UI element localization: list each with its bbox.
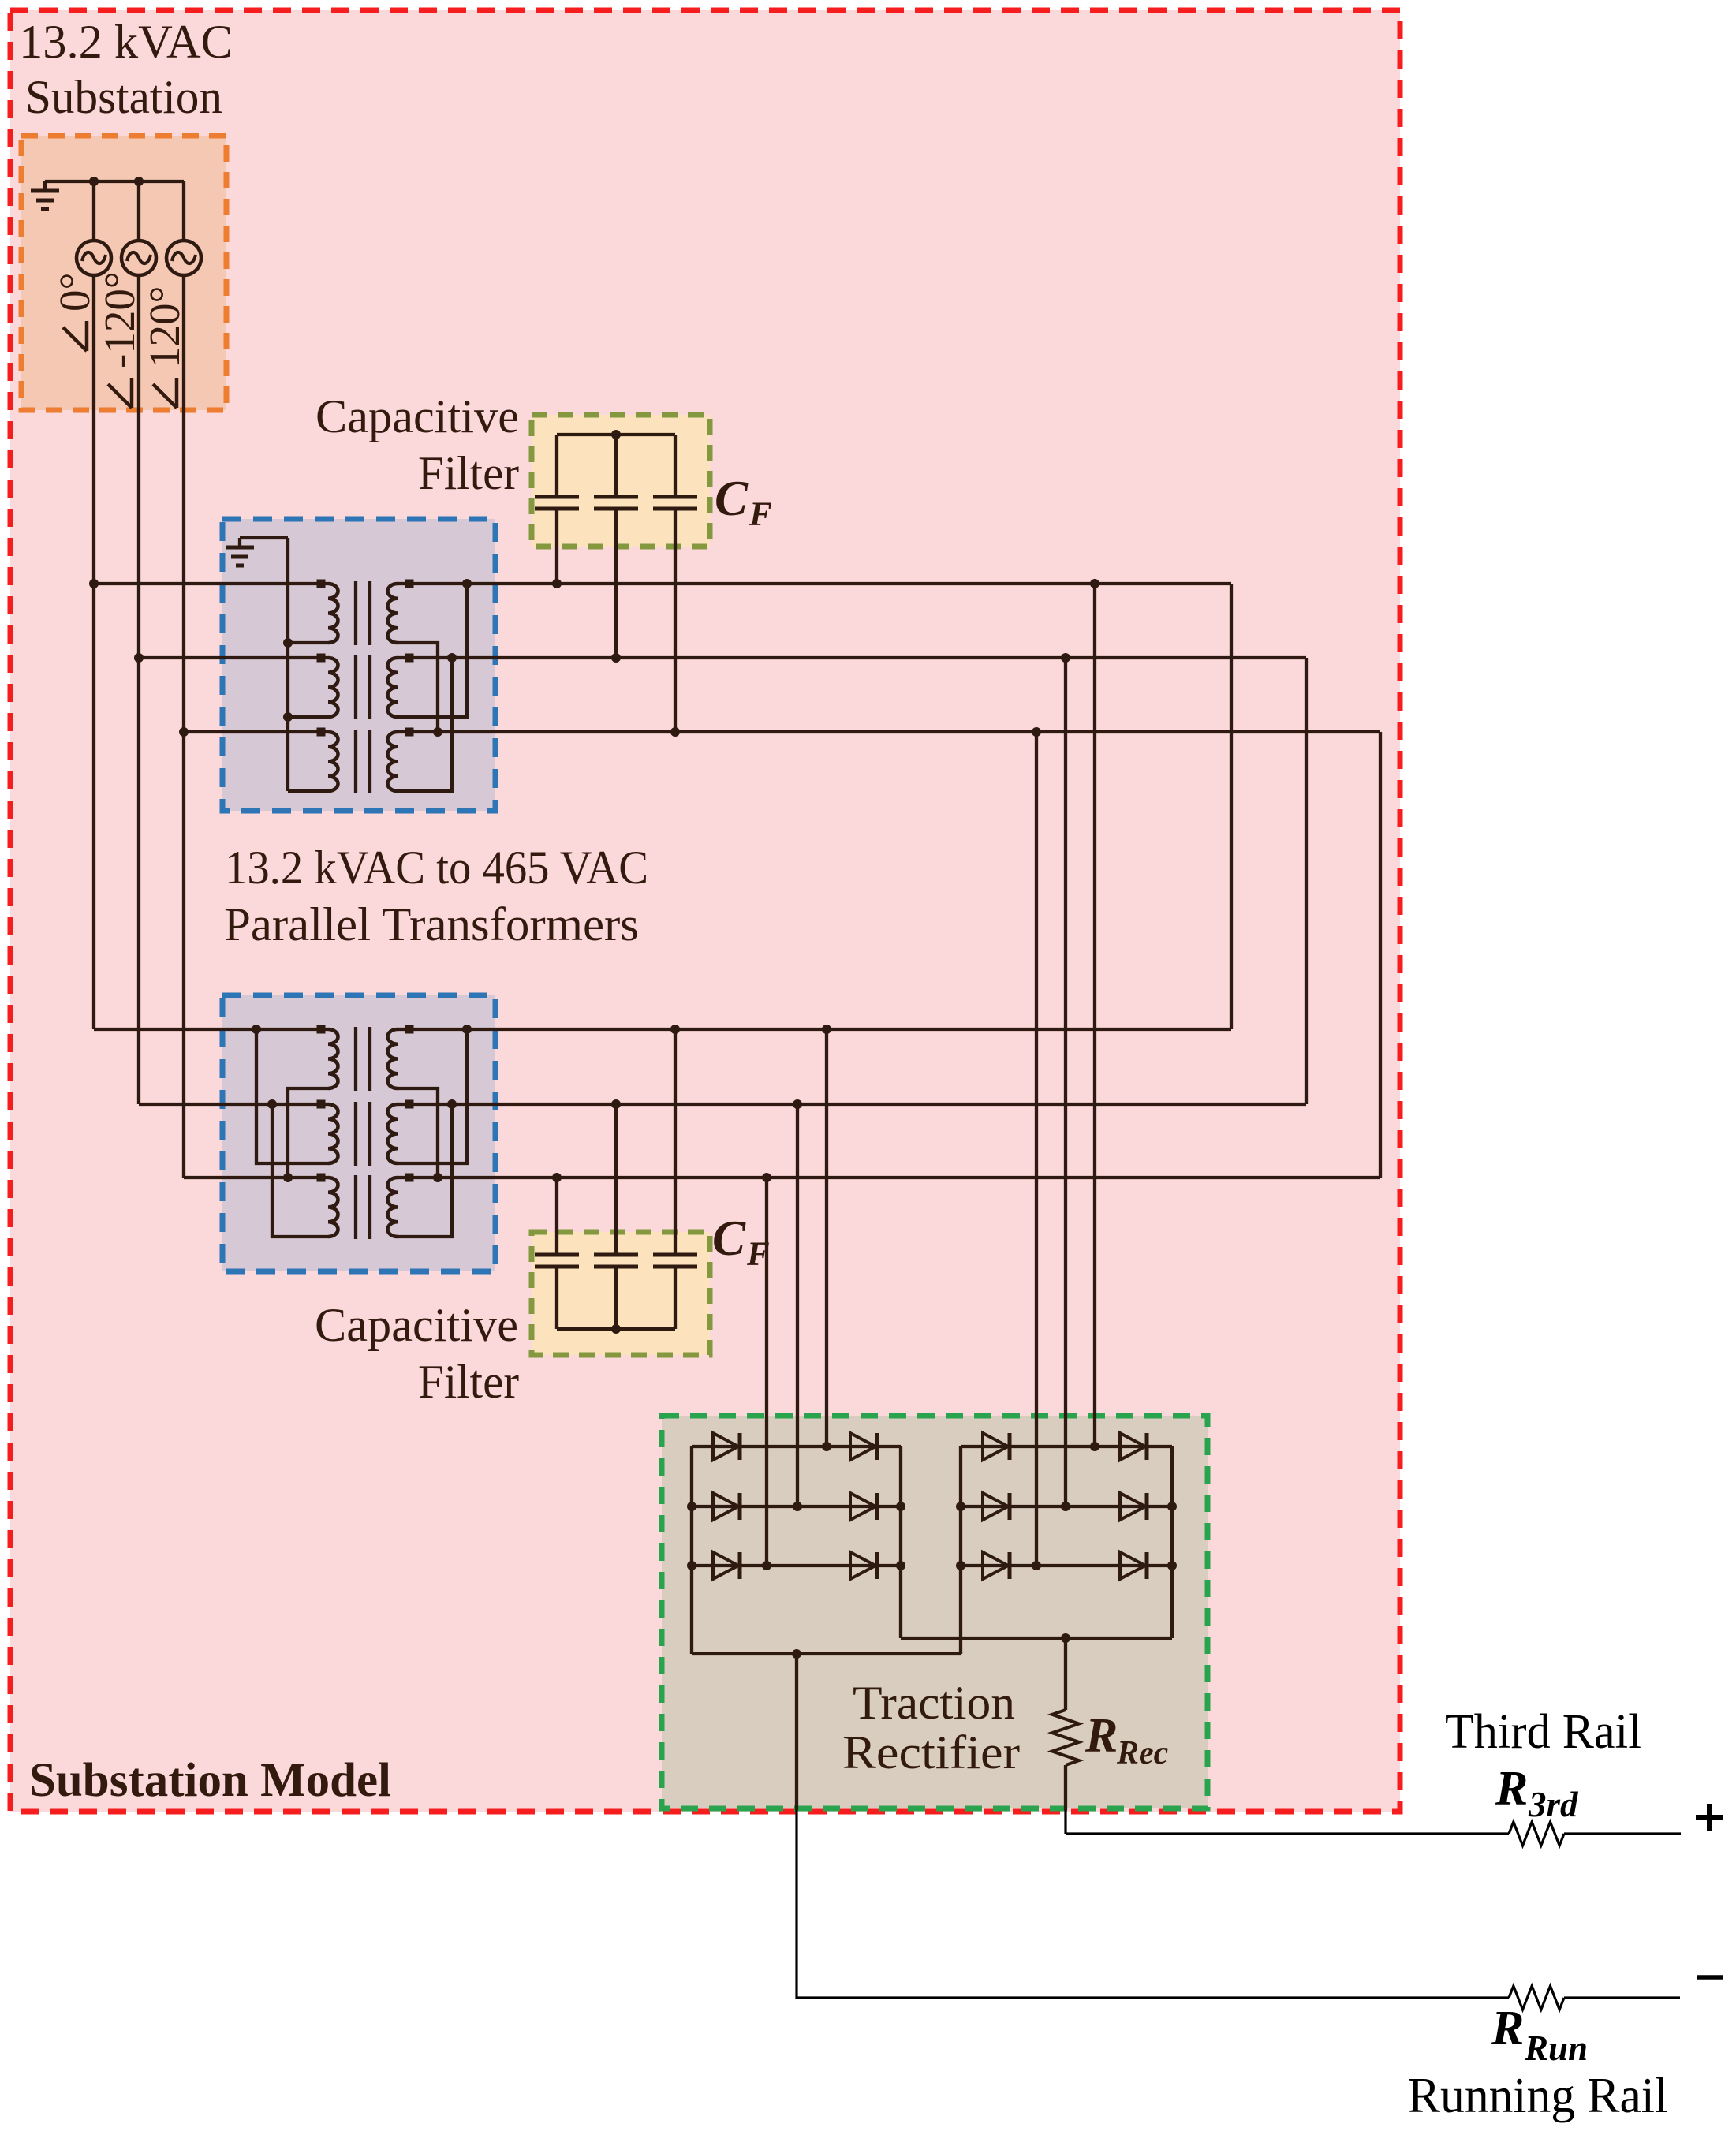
wire positive bus (901, 1637, 1172, 1640)
svg-text:Substation Model: Substation Model (29, 1754, 391, 1807)
node T2 delta P1-C (283, 1173, 293, 1182)
wire phase B drop to source (137, 181, 140, 241)
wire phase C drop to source (182, 181, 185, 241)
T2 secondary coil S1 (388, 1029, 398, 1088)
diode D9 (983, 1493, 1008, 1520)
svg-text:Traction: Traction (853, 1677, 1015, 1729)
substation model outer box (10, 10, 1400, 1812)
T1 core lines phase2 (354, 655, 357, 719)
node wireA2 drop (822, 1025, 831, 1034)
node bridge2 row2 right (1167, 1502, 1177, 1511)
T2 S3 polarity square (405, 1174, 414, 1182)
T1 secondary coil S2 (388, 658, 398, 717)
node bridge1 row3 left (687, 1561, 696, 1570)
svg-text:13.2 kVAC: 13.2 kVAC (19, 16, 233, 68)
node positive output tap (1061, 1633, 1070, 1643)
node CF2c-wireA (670, 1025, 680, 1034)
T2 secondary coil S2 (388, 1104, 398, 1163)
svg-text:Run: Run (1524, 2029, 1588, 2068)
node T1A tap (89, 579, 99, 588)
13.2 kVAC substation box (21, 136, 226, 410)
T2 core lines phase3 (354, 1175, 357, 1239)
node bridge1 row3 input (762, 1561, 771, 1570)
capacitor CF2c lead top (674, 1029, 677, 1255)
T1 P2 polarity square (317, 654, 326, 663)
traction rectifier box (662, 1416, 1208, 1808)
svg-text:R: R (1085, 1709, 1118, 1763)
T1 primary coil P3 (328, 732, 338, 791)
AC source V2 -120deg (121, 241, 156, 275)
capacitor CF1c lead bottom (674, 509, 677, 732)
wire T1 secondary B (409, 656, 1306, 659)
wire T2 secondary B (409, 1103, 1306, 1106)
T1 secondary coil S1 (388, 584, 398, 643)
label minus terminal (1697, 1975, 1723, 1980)
node CF1c-wireC (670, 727, 680, 737)
svg-text:Parallel Transformers: Parallel Transformers (224, 898, 639, 950)
T1 S3 polarity square (405, 728, 414, 737)
wire parallel link A (1230, 584, 1233, 1029)
resistor RRun (1509, 1986, 1564, 2010)
node T2 delta S2-A (462, 1025, 472, 1034)
node bridge2 row3 right (1167, 1561, 1177, 1570)
T2 P2 polarity square (317, 1100, 326, 1109)
node T2 delta P3-B (267, 1099, 277, 1109)
wire T1 S2 bottom to wireA (398, 584, 467, 717)
wire drop B to bridge2 row2 (1064, 658, 1067, 1506)
T2 primary coil P2 (328, 1104, 338, 1163)
diode D1 (713, 1433, 738, 1460)
node bridge1 row3 right (896, 1561, 905, 1570)
wire T2 P1 bottom to wireC (288, 1088, 328, 1178)
node bridge1 row2 left (687, 1502, 696, 1511)
wire T1 primary A (94, 582, 321, 585)
node bridge1 row1 input (822, 1442, 831, 1451)
capacitor CF2b lead top (614, 1104, 618, 1255)
svg-text:R: R (1495, 1762, 1528, 1816)
capacitive filter CF2 box (532, 1232, 710, 1355)
AC source V3 120deg (166, 241, 201, 275)
node T2 delta S3-B (447, 1099, 457, 1109)
wire RRec top lead (1064, 1638, 1067, 1710)
T1 P1 polarity square (317, 580, 326, 588)
diode D6 (850, 1552, 875, 1579)
T2 S2 polarity square (405, 1100, 414, 1109)
node bridge2 row3 input (1032, 1561, 1041, 1570)
wire RRec bottom lead (1064, 1765, 1067, 1810)
node negative output tap (792, 1649, 801, 1659)
wire T2 secondary C (409, 1176, 1380, 1179)
wire third rail horizontal right (1564, 1832, 1681, 1835)
svg-text:Capacitive: Capacitive (315, 390, 519, 442)
resistor RRec (1052, 1710, 1079, 1765)
wire T1 secondary A (409, 582, 1231, 585)
node T1B tap (134, 653, 144, 663)
CF1 top bus (557, 433, 675, 436)
CF2 bottom bus (557, 1327, 675, 1331)
node bridge1 row2 right (896, 1502, 905, 1511)
diode D8 (1120, 1433, 1145, 1460)
diode D12 (1120, 1552, 1145, 1579)
node T1 delta S1-C (433, 727, 442, 737)
wire running rail drop outside (797, 1810, 1509, 1998)
wire T1 neutral vertical (286, 538, 289, 791)
transformer T2 box (222, 995, 495, 1271)
wire drop B2 to bridge1 row2 (796, 1104, 799, 1506)
label angle 120deg (140, 286, 189, 409)
capacitor CF1c plates (653, 495, 697, 499)
node T2 delta S1-C (433, 1173, 442, 1182)
node wireB2 drop (793, 1099, 802, 1109)
wire T1 primary C (184, 730, 321, 733)
svg-text:Rectifier: Rectifier (842, 1726, 1020, 1779)
svg-text:13.2 kVAC to 465 VAC: 13.2 kVAC to 465 VAC (225, 842, 648, 894)
wire phase A vertical (92, 275, 95, 1029)
wire third rail inside-out (1064, 1810, 1066, 1834)
svg-text:3rd: 3rd (1528, 1785, 1579, 1824)
bridge2 right rail (1170, 1446, 1174, 1638)
T2 core lines phase1 (354, 1027, 357, 1091)
wire T2 S2 bottom to wireA (398, 1029, 467, 1163)
node wireA drop (1090, 579, 1099, 588)
T1 S1 polarity square (405, 580, 414, 588)
capacitor CF2b plates (594, 1253, 638, 1257)
node T1 delta S2-A (462, 579, 472, 588)
node bridge2 row1 input (1090, 1442, 1099, 1451)
node T1 neutral P1 (283, 638, 293, 648)
T2 primary coil P3 (328, 1178, 338, 1237)
capacitor CF1b plates (594, 495, 638, 499)
wire phase A drop to source (92, 181, 95, 241)
T2 S1 polarity square (405, 1025, 414, 1034)
T2 primary coil P1 (328, 1029, 338, 1088)
wire drop A2 to bridge1 row1 (825, 1029, 828, 1446)
T2 core lines phase2 (354, 1102, 357, 1166)
wire T2 P2 bottom to wireA (256, 1029, 328, 1163)
wire parallel link C (1379, 732, 1382, 1178)
capacitor CF2a lead bottom (555, 1267, 558, 1329)
capacitor CF1c lead top (674, 435, 677, 497)
wire T2 primary A (94, 1028, 320, 1031)
diode D4 (850, 1493, 875, 1520)
node T2 delta P2-A (252, 1025, 261, 1034)
node wireC drop (1032, 727, 1041, 737)
node bridge2 row3 left (956, 1561, 965, 1570)
svg-text:Running Rail: Running Rail (1408, 2068, 1668, 2123)
bridge1 row1 wire (692, 1445, 901, 1448)
substation bus wire (45, 180, 184, 183)
T2 P1 polarity square (317, 1025, 326, 1034)
node bus-phase B (134, 177, 144, 186)
capacitor CF1a plates (535, 495, 579, 499)
node CF1a-wireA (552, 579, 562, 588)
wire T1 secondary C (409, 730, 1380, 733)
wire T1 neutral top (240, 536, 288, 539)
label plus terminal (1696, 1804, 1723, 1831)
svg-text:R: R (1491, 2002, 1524, 2055)
wire running rail drop (795, 1654, 798, 1810)
wire drop C to bridge2 row3 (1035, 732, 1038, 1566)
capacitive filter CF1 box (532, 415, 710, 547)
T1 core lines phase1 (354, 581, 357, 645)
svg-text:0°: 0° (50, 273, 99, 312)
wire drop A to bridge2 row1 (1093, 584, 1096, 1446)
ground symbol T1 (226, 538, 254, 565)
ground symbol substation (31, 181, 59, 209)
node CF1b-wireB (611, 653, 621, 663)
bridge1 right rail (899, 1446, 902, 1638)
bridge2 left rail (959, 1446, 962, 1654)
node bridge1 row2 input (793, 1502, 802, 1511)
svg-text:F: F (749, 496, 772, 533)
wire T1 primary B (139, 656, 321, 659)
capacitor CF1b lead bottom (614, 509, 618, 658)
transformer T1 box (222, 519, 495, 811)
svg-text:120°: 120° (140, 286, 189, 369)
wire phase B vertical (137, 275, 140, 1104)
wire drop C2 to bridge1 row3 (765, 1178, 768, 1566)
wire T1 S1 bottom to wireC (398, 643, 438, 732)
label angle 0deg (50, 273, 99, 352)
wire T1 S3 bottom to wireB (398, 658, 452, 791)
diode D10 (1120, 1493, 1145, 1520)
wire parallel link B (1305, 658, 1308, 1104)
svg-text:Third Rail: Third Rail (1445, 1705, 1641, 1759)
node CF2b-wireB (611, 1099, 621, 1109)
capacitor CF2a plates (535, 1253, 579, 1257)
svg-text:-120°: -120° (95, 271, 144, 368)
capacitor CF1a lead top (555, 435, 558, 497)
wire running rail horizontal right (1564, 1996, 1680, 1999)
wire phase C vertical (182, 275, 185, 1178)
T1 primary coil P2 (328, 658, 338, 717)
node T1C tap (179, 727, 189, 737)
node T1 neutral P2 (283, 712, 293, 722)
wire third rail horizontal left (1066, 1832, 1509, 1835)
diode D11 (983, 1552, 1008, 1579)
node bridge2 row2 input (1061, 1502, 1070, 1511)
diode D5 (713, 1552, 738, 1579)
AC source V1 0deg (77, 241, 111, 275)
svg-text:C: C (712, 1211, 746, 1266)
wire T2 S1 bottom to wireC (398, 1088, 438, 1178)
node wireB drop (1061, 653, 1070, 663)
wire T2 P3 bottom to wireB (272, 1104, 328, 1237)
svg-text:Substation: Substation (25, 71, 222, 123)
bridge1 left rail (690, 1446, 693, 1654)
T1 core lines phase3 (354, 730, 357, 793)
svg-text:Capacitive: Capacitive (315, 1299, 518, 1351)
capacitor CF2c plates (653, 1253, 697, 1257)
bridge1 row3 wire (692, 1564, 901, 1567)
capacitor CF2a lead top (555, 1178, 558, 1255)
wire T2 primary B (139, 1103, 320, 1106)
svg-text:Filter: Filter (418, 447, 519, 499)
diode D7 (983, 1433, 1008, 1460)
capacitor CF1b lead top (614, 435, 618, 497)
T1 secondary coil S3 (388, 732, 398, 791)
wire T1 P2 bottom (288, 715, 328, 719)
svg-text:Rec: Rec (1116, 1735, 1169, 1771)
diode D3 (713, 1493, 738, 1520)
bridge1 row2 wire (692, 1505, 901, 1508)
resistor R3rd (1509, 1822, 1564, 1846)
T1 S2 polarity square (405, 654, 414, 663)
T1 primary coil P1 (328, 584, 338, 643)
node CF2a-wireC (552, 1173, 562, 1182)
capacitor CF1a lead bottom (555, 509, 558, 584)
capacitor CF2c lead bottom (674, 1267, 677, 1329)
node bus-phase A (89, 177, 99, 186)
bridge2 row3 wire (961, 1564, 1172, 1567)
wire T2 S3 bottom to wireB (398, 1104, 452, 1237)
T2 P3 polarity square (317, 1174, 326, 1182)
label angle -120deg (95, 271, 144, 408)
node T1 delta S3-B (447, 653, 457, 663)
T2 secondary coil S3 (388, 1178, 398, 1237)
bridge2 row2 wire (961, 1505, 1172, 1508)
wire T1 P1 bottom (288, 641, 328, 644)
CF1 bus node (611, 430, 621, 439)
svg-text:C: C (715, 471, 749, 526)
CF2 bus node (611, 1324, 621, 1334)
diode D2 (850, 1433, 875, 1460)
node wireC2 drop (762, 1173, 771, 1182)
wire negative bus (692, 1652, 961, 1655)
bridge2 row1 wire (961, 1445, 1172, 1448)
node bridge2 row2 left (956, 1502, 965, 1511)
svg-text:Filter: Filter (418, 1356, 519, 1408)
wire T1 P3 bottom (288, 789, 328, 793)
wire T2 primary C (184, 1176, 320, 1179)
wire T2 secondary A (409, 1028, 1231, 1031)
svg-text:F: F (746, 1236, 770, 1273)
T1 P3 polarity square (317, 728, 326, 737)
capacitor CF2b lead bottom (614, 1267, 618, 1329)
